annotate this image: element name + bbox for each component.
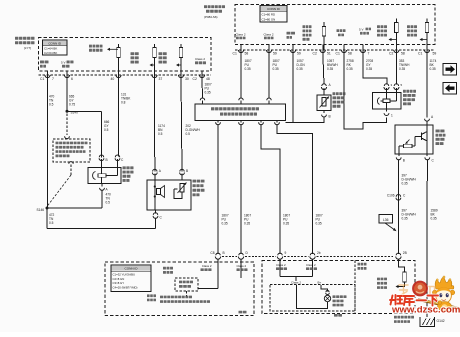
svg-text:59: 59: [273, 52, 277, 56]
svg-text:0.5: 0.5: [106, 200, 111, 204]
svg-text:0.35: 0.35: [402, 181, 408, 185]
svg-text:2B: 2B: [403, 251, 407, 255]
svg-text:S146: S146: [37, 208, 45, 212]
svg-text:0.8: 0.8: [121, 100, 126, 104]
svg-text:C1=32 YU/GN/BU: C1=32 YU/GN/BU: [113, 272, 136, 276]
svg-text:0.35: 0.35: [431, 216, 437, 220]
svg-text:58: 58: [348, 52, 352, 56]
svg-text:C4=20 (W/BT/YMD): C4=20 (W/BT/YMD): [113, 286, 138, 290]
svg-text:0.5: 0.5: [186, 132, 191, 136]
svg-text:L36: L36: [383, 218, 389, 222]
svg-text:B: B: [329, 115, 331, 119]
svg-text:37: 37: [159, 77, 163, 81]
svg-text:7: 7: [52, 77, 54, 81]
svg-text:48: 48: [206, 77, 210, 81]
svg-text:G142: G142: [437, 319, 445, 323]
svg-text:C1: C1: [40, 77, 44, 81]
svg-text:C1: C1: [418, 52, 422, 56]
svg-text:5 V: 5 V: [359, 27, 364, 31]
svg-text:6: 6: [71, 77, 73, 81]
svg-text:0.35: 0.35: [205, 90, 211, 94]
svg-text:51: 51: [327, 52, 331, 56]
svg-text:C2: C2: [389, 52, 393, 56]
svg-text:0.35: 0.35: [297, 67, 303, 71]
svg-text:Class 2: Class 2: [291, 280, 301, 284]
svg-text:Class 2: Class 2: [276, 263, 286, 267]
svg-text:Class 2: Class 2: [195, 57, 205, 61]
svg-text:0.35: 0.35: [327, 67, 333, 71]
svg-text:B: B: [223, 251, 225, 255]
svg-text:40: 40: [111, 77, 115, 81]
svg-text:B+: B+: [318, 280, 322, 284]
svg-text:0.35: 0.35: [399, 67, 405, 71]
svg-text:B: B: [186, 169, 188, 173]
svg-text:Class 2: Class 2: [306, 263, 316, 267]
svg-text:0.35: 0.35: [245, 67, 251, 71]
svg-text:0.35: 0.35: [402, 216, 408, 220]
svg-text:C2=64 BK: C2=64 BK: [44, 51, 57, 55]
svg-text:C1: C1: [233, 52, 237, 56]
svg-text:0.5: 0.5: [49, 221, 54, 225]
svg-text:C8: C8: [210, 251, 214, 255]
svg-text:0.5: 0.5: [104, 128, 109, 132]
svg-text:0.5: 0.5: [49, 102, 54, 106]
svg-text:0.35: 0.35: [316, 221, 322, 225]
svg-text:0.35: 0.35: [430, 67, 436, 71]
svg-text:0.35: 0.35: [347, 67, 353, 71]
svg-text:CONN ID: CONN ID: [124, 267, 138, 271]
svg-text:58: 58: [401, 52, 405, 56]
svg-text:Class 2: Class 2: [235, 32, 245, 36]
svg-text:1: 1: [391, 114, 393, 118]
svg-text:0.5: 0.5: [158, 132, 163, 136]
svg-text:0.35: 0.35: [366, 67, 372, 71]
svg-text:C3=8 GY: C3=8 GY: [113, 281, 125, 285]
svg-text:7: 7: [368, 52, 370, 56]
svg-text:9: 9: [285, 251, 287, 255]
svg-text:0.35: 0.35: [222, 221, 228, 225]
svg-text:59: 59: [297, 52, 301, 56]
svg-text:2b: 2b: [317, 251, 321, 255]
svg-text:C2: C2: [193, 77, 197, 81]
svg-text:Class 2: Class 2: [237, 264, 247, 268]
svg-text:B: B: [106, 158, 108, 162]
svg-text:C1=80 RD: C1=80 RD: [262, 13, 276, 17]
svg-text:0.35: 0.35: [283, 221, 289, 225]
svg-text:[LY7]: [LY7]: [24, 46, 31, 50]
svg-text:B: B: [403, 159, 405, 163]
svg-text:5 V: 5 V: [61, 60, 66, 64]
svg-text:0.75: 0.75: [69, 102, 75, 106]
svg-text:(P08/LS6): (P08/LS6): [204, 15, 218, 19]
svg-text:30: 30: [185, 77, 189, 81]
svg-text:0.35: 0.35: [273, 67, 279, 71]
svg-text:www.dzsc.com: www.dzsc.com: [391, 305, 460, 316]
svg-text:0.35: 0.35: [244, 221, 250, 225]
svg-text:C2: C2: [313, 52, 317, 56]
svg-text:C2=8 GN: C2=8 GN: [113, 277, 125, 281]
svg-text:CONN ID: CONN ID: [267, 7, 281, 11]
svg-text:Class 2: Class 2: [263, 32, 273, 36]
svg-text:C106: C106: [387, 193, 395, 197]
svg-text:CONN ID: CONN ID: [48, 41, 62, 45]
svg-text:Class 2: Class 2: [202, 264, 212, 268]
svg-text:59: 59: [433, 52, 437, 56]
svg-text:C2=80 GN: C2=80 GN: [262, 17, 276, 21]
svg-text:C1: C1: [336, 52, 340, 56]
svg-text:58: 58: [245, 52, 249, 56]
